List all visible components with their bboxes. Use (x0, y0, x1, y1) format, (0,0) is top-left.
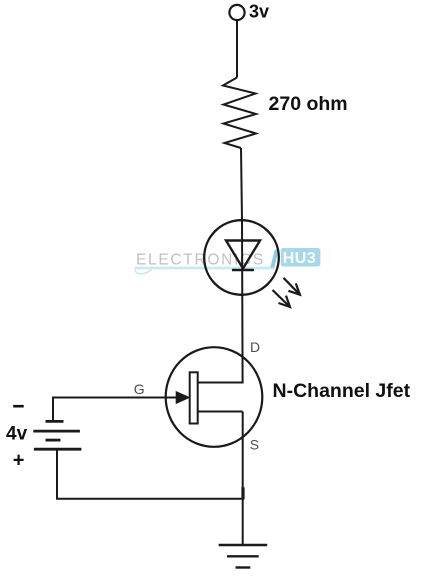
svg-text:N-Channel Jfet: N-Channel Jfet (273, 380, 411, 402)
wire gate down to battery (52, 397, 54, 422)
wire terminal to resistor (236, 20, 238, 77)
wire source to ground (242, 412, 244, 546)
wire battery to ground node (57, 449, 243, 499)
svg-text:3v: 3v (249, 1, 269, 21)
svg-text:G: G (134, 381, 145, 397)
LED emission arrow 2 (273, 290, 291, 307)
svg-text:HU3: HU3 (283, 250, 317, 267)
wire through LED to JFET drain (241, 221, 244, 384)
svg-text:270 ohm: 270 ohm (269, 93, 348, 115)
svg-text:4v: 4v (6, 424, 28, 445)
LED emission arrow 1 (284, 278, 300, 295)
svg-text:D: D (250, 339, 260, 355)
junction at source/ground node (241, 487, 244, 499)
svg-text:S: S (250, 436, 259, 452)
wire resistor to LED (241, 148, 242, 221)
label minus (13, 405, 24, 408)
node 3v supply terminal (229, 5, 244, 20)
LED D1 (204, 220, 279, 295)
ground (219, 545, 268, 568)
transistor Q1 N-channel JFET (53, 347, 262, 447)
svg-text:+: + (13, 450, 25, 472)
resistor R1 270 ohm (223, 78, 256, 149)
battery B1 4v (33, 421, 81, 449)
watermark ElectronicsHub logo (135, 248, 321, 274)
